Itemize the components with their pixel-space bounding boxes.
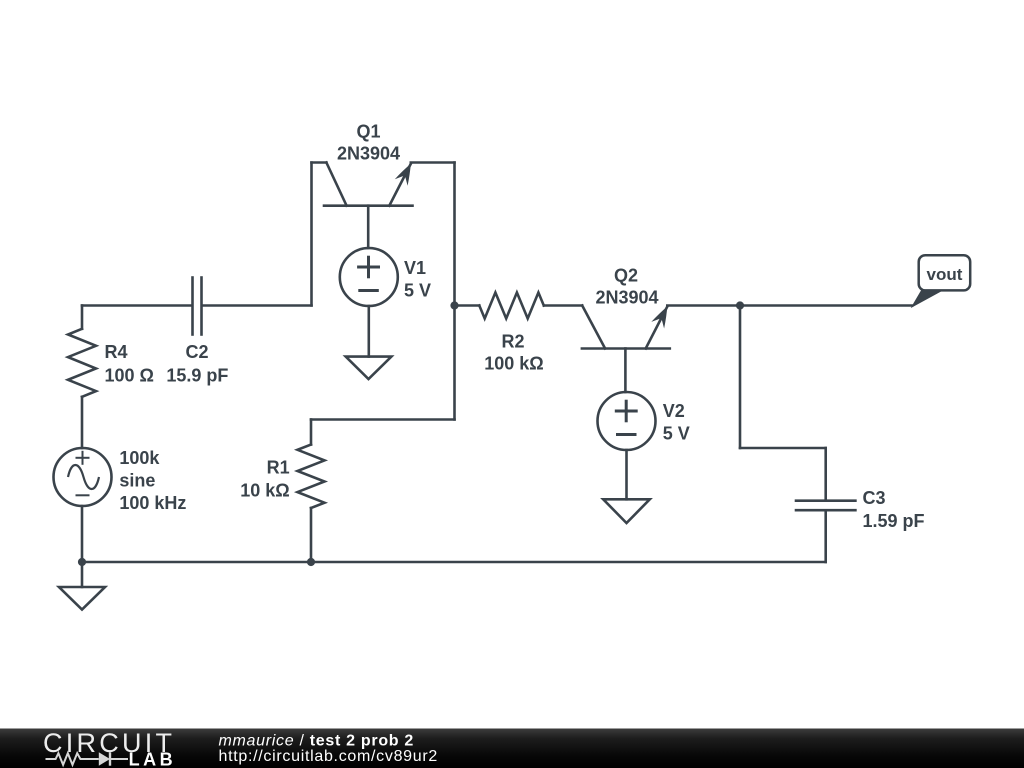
svg-text:100 kΩ: 100 kΩ bbox=[484, 353, 543, 373]
svg-text:Q1: Q1 bbox=[356, 122, 380, 142]
svg-text:2N3904: 2N3904 bbox=[595, 287, 658, 307]
svg-text:V2: V2 bbox=[663, 401, 685, 421]
svg-text:R4: R4 bbox=[105, 342, 128, 362]
svg-text:LAB: LAB bbox=[129, 750, 177, 768]
svg-text:2N3904: 2N3904 bbox=[337, 143, 400, 163]
svg-text:10 kΩ: 10 kΩ bbox=[240, 481, 289, 501]
svg-text:1.59 pF: 1.59 pF bbox=[863, 511, 925, 531]
svg-text:vout: vout bbox=[927, 265, 963, 284]
svg-text:C3: C3 bbox=[863, 488, 886, 508]
svg-text:100 kHz: 100 kHz bbox=[119, 493, 186, 513]
svg-text:R2: R2 bbox=[501, 332, 524, 352]
svg-text:5 V: 5 V bbox=[404, 281, 431, 301]
svg-text:100k: 100k bbox=[119, 448, 160, 468]
svg-text:sine: sine bbox=[119, 471, 155, 491]
svg-text:C2: C2 bbox=[185, 342, 208, 362]
svg-text:R1: R1 bbox=[267, 458, 290, 478]
svg-text:Q2: Q2 bbox=[614, 266, 638, 286]
svg-text:15.9 pF: 15.9 pF bbox=[166, 366, 228, 386]
svg-text:http://circuitlab.com/cv89ur2: http://circuitlab.com/cv89ur2 bbox=[219, 748, 439, 765]
svg-text:5 V: 5 V bbox=[663, 424, 690, 444]
svg-text:100 Ω: 100 Ω bbox=[105, 366, 154, 386]
svg-text:V1: V1 bbox=[404, 258, 426, 278]
